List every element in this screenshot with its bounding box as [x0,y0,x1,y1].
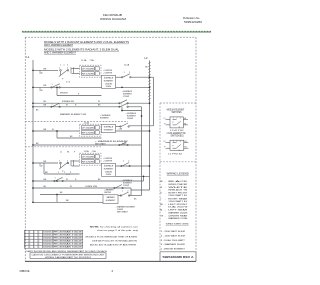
dual element switch S1 dashed enclosure [80,65,102,77]
svg-text:AND 1 WARMER ELEMENT: AND 1 WARMER ELEMENT [44,51,76,54]
svg-text:5995420286 REV A: 5995420286 REV A [163,255,194,259]
svg-text:AVOID A UTILIZATION OF ANOTHER: AVOID A UTILIZATION OF ANOTHER [90,243,137,246]
svg-text:OR: OR [160,215,163,217]
svg-text:11.5A: 11.5A [84,150,90,153]
svg-text:P: P [74,151,76,153]
svg-text:1: 1 [64,65,65,67]
junction C2 tap [56,180,58,182]
svg-text:WIRING DIAGRAM: WIRING DIAGRAM [100,17,127,21]
svg-text:BK: BK [145,67,148,69]
wire L1 upper B row [33,102,120,104]
svg-text:WARMER: WARMER [106,196,115,199]
svg-text:4 - WARMER 1100W: 4 - WARMER 1100W [161,243,185,246]
svg-text:1 - 2500 WATT ELEM: 1 - 2500 WATT ELEM [161,230,186,233]
svg-text:11.5A: 11.5A [81,59,87,62]
svg-text:WARMER 1500W: WARMER 1500W [168,211,187,214]
switch contact S8 [121,163,131,167]
svg-text:-: - [165,210,166,212]
svg-text:2500W: 2500W [105,83,112,85]
dual element switch S1 row 2 contact box [81,72,94,75]
wire E2 out [116,126,121,128]
svg-text:CENTER REAR: CENTER REAR [168,214,188,217]
svg-text:240V: 240V [106,86,112,88]
svg-text:SWITCH(ES): SWITCH(ES) [171,136,184,138]
aux bus wire [153,77,155,126]
wire B2 drop [56,131,58,138]
svg-text:316048418: 316048418 [43,246,52,248]
svg-text:RR 1200W: RR 1200W [82,132,94,134]
svg-text:1 2 3: 1 2 3 [66,174,70,176]
switch contact S6 [119,142,129,146]
svg-text:BK: BK [36,109,39,111]
wire L1 to S4 [33,130,80,132]
label surface element A [122,90,133,98]
svg-text:LF 2500W: LF 2500W [82,68,94,70]
svg-text:FEC30S6AW 316048: FEC30S6AW 316048 [54,237,82,240]
svg-text:x: x [25,232,26,234]
switch contact S9 [120,192,130,196]
svg-text:WARMER ELEMENT SW: WARMER ELEMENT SW [60,113,86,116]
svg-text:1: 1 [52,84,53,86]
junction L1-B1 [32,106,34,108]
wire L1 oven row [33,187,131,189]
svg-text:WIRING DIAGRAM PART NO 3162393: WIRING DIAGRAM PART NO 316239301 [45,256,91,259]
svg-text:L1: L1 [164,118,166,120]
wire L1 to element E1 [33,86,102,88]
switch contact S1b [51,84,61,88]
svg-text:1750W: 1750W [123,185,129,187]
wire E4 out [118,195,121,197]
wire C2 riser [143,176,145,181]
svg-text:H2: H2 [184,123,186,125]
svg-text:SURFACE SW: SURFACE SW [62,100,74,103]
junction L2-A2 [149,86,151,88]
wire S1 in b [72,73,80,75]
svg-text:3 - DUAL 2500 WATT: 3 - DUAL 2500 WATT [161,239,186,242]
wire B drop [121,107,123,111]
svg-text:7.5A: 7.5A [90,59,95,62]
svg-text:FEC36S6AB 316048: FEC36S6AB 316048 [54,240,82,243]
element switch S4 row 1 contact box [81,126,94,129]
wire S9 to N [129,195,141,197]
main box bottom border [25,260,196,262]
notes text block [44,41,129,55]
dual element switch detail [166,140,189,150]
svg-text:LF 2500W: LF 2500W [82,156,94,158]
svg-text:5 - BRIDGE ELEMENT: 5 - BRIDGE ELEMENT [161,249,186,251]
svg-text:CAUTION: DISCONNECT POWER BEFO: CAUTION: DISCONNECT POWER BEFORE SERVICI… [32,253,106,256]
svg-text:-: - [165,193,166,195]
svg-text:H1: H1 [185,141,187,143]
surface element E3 [102,163,116,176]
junction L2-A1 [149,76,151,78]
svg-text:NOTE: for checking all switche: NOTE: for checking all switches see [90,226,139,229]
dual element switch S7 dashed enclosure [80,153,102,165]
switch contact S3a [51,103,61,107]
svg-text:ELEMENT: ELEMENT [106,200,116,202]
svg-text:BR: BR [160,204,163,206]
wire E1 return [116,86,150,88]
svg-text:BL: BL [160,210,162,212]
svg-text:SURFACE: SURFACE [104,165,114,168]
svg-text:ELEMENT: ELEMENT [104,168,114,170]
wire S7 in b [72,165,80,167]
svg-text:2: 2 [127,103,128,105]
L2 bus crossing ticks [148,62,151,99]
svg-text:2: 2 [128,161,129,163]
wire upper B to L2 [128,102,150,104]
svg-text:2: 2 [127,190,128,192]
svg-text:W: W [160,187,162,189]
svg-text:1200 WATT EL: 1200 WATT EL [168,200,187,203]
svg-text:RIGHT REAR: RIGHT REAR [168,197,188,200]
svg-text:7.5A: 7.5A [92,150,97,153]
junction N tap [141,115,143,117]
green separator rule [22,31,211,33]
svg-text:1: 1 [59,160,60,162]
svg-text:ELEMENT: ELEMENT [104,130,114,132]
svg-text:DUAL 2500 W: DUAL 2500 W [168,206,187,209]
junction L1-A2 [32,87,34,89]
svg-text:RR 1200W: RR 1200W [82,161,94,163]
svg-text:BK: BK [44,161,47,163]
svg-text:H1: H1 [67,151,69,153]
switch contact S3b [119,103,129,107]
wire L1 to warmer [33,201,103,203]
wire A2 drop [56,87,58,95]
switch S7 contacts [59,160,73,169]
svg-text:+ LIMITER: + LIMITER [103,160,113,162]
switch contact S10 [114,185,124,189]
svg-text:1750W: 1750W [123,96,129,98]
svg-text:BK: BK [98,179,101,181]
svg-text:-: - [165,215,166,217]
svg-text:S: S [179,127,181,129]
wire S3 to N [128,106,142,108]
wire C aux drop [43,163,45,174]
svg-text:RR 1200W: RR 1200W [82,73,94,75]
svg-text:1: 1 [59,68,60,70]
neutral bus wire [141,107,143,196]
wire L1 warmer row [33,144,142,146]
svg-text:SURFACE: SURFACE [104,77,114,80]
svg-text:1: 1 [122,190,123,192]
svg-text:MODELS PLUS WIRING AT TIME OF: MODELS PLUS WIRING AT TIME OF A NEW [86,236,139,239]
svg-text:40: 40 [41,73,43,75]
junction B2 tap [56,130,58,132]
junction L1-B3 [32,144,34,146]
svg-text:SURFACE: SURFACE [104,126,114,129]
svg-text:L1 P H2 S2: L1 P H2 S2 [168,153,182,155]
switch contact S5 [120,123,130,127]
wire warmer feed [40,194,103,196]
svg-text:2: 2 [112,269,114,273]
dual element switch S1 row 1 contact box [81,67,94,70]
svg-text:BK: BK [60,192,63,194]
wire L1 to S1 [33,69,58,71]
svg-text:SEE CHART: SEE CHART [95,143,107,146]
svg-text:2 - 1200 WATT ELEM: 2 - 1200 WATT ELEM [161,234,186,237]
wire S1 P line [57,95,102,97]
switch S1 contacts [59,67,73,76]
svg-text:WIRING LEGEND: WIRING LEGEND [167,171,189,175]
svg-text:R: R [75,105,77,107]
wire S7 aux line [44,173,80,175]
svg-text:x: x [25,238,26,240]
wire D riser [130,188,132,196]
svg-text:-: - [165,187,166,189]
wire flag C1 [39,163,41,167]
wire B tap to N [122,110,142,112]
wire S1 in a [72,68,80,70]
svg-text:316048414: 316048414 [43,235,52,237]
wire L2 bottom link [131,189,150,191]
svg-text:SENSOR: SENSOR [60,92,68,94]
junction N-C [143,175,145,177]
model chart table [24,230,82,248]
model chart text [25,231,82,249]
svg-text:1: 1 [173,118,174,120]
svg-text:2: 2 [59,103,60,105]
junction L2-B0 [149,102,151,104]
svg-text:P: P [173,145,175,147]
svg-text:SEE CHART: SEE CHART [117,211,129,214]
svg-text:1200W: 1200W [127,118,133,120]
svg-text:P: P [78,93,80,95]
caution box [30,253,106,259]
svg-text:1: 1 [121,103,122,105]
svg-text:BK: BK [70,136,73,138]
svg-text:W/RED TRACER: W/RED TRACER [168,183,188,186]
svg-text:08/01: 08/01 [20,269,31,273]
svg-text:2: 2 [59,84,60,86]
svg-text:R: R [75,179,77,181]
svg-text:SWITCHES: SWITCHES [172,112,182,114]
svg-text:2: 2 [67,65,68,67]
section divider dashed 1 [25,121,128,123]
surface element E1 [102,75,116,88]
svg-text:x: x [25,241,26,243]
wire L1 to element E3 [33,180,144,182]
svg-text:BK: BK [36,143,39,145]
svg-text:1: 1 [55,178,56,180]
svg-text:1: 1 [58,172,59,174]
svg-text:L1: L1 [26,55,30,59]
svg-text:Y: Y [160,198,162,200]
svg-text:FEC30S6AB 316048: FEC30S6AB 316048 [54,231,82,234]
svg-text:+ LIMITER: + LIMITER [103,72,113,74]
svg-text:BK: BK [134,199,137,201]
svg-text:2: 2 [67,160,68,162]
wire S5 to aux [129,125,154,127]
wire S7 in a [72,160,80,162]
wire flag A2 [39,87,41,91]
svg-text:W: W [66,179,68,181]
svg-text:ELEMENT: ELEMENT [100,118,110,120]
svg-text:L1: L1 [60,151,62,153]
svg-text:L1 H1 P H2: L1 H1 P H2 [170,130,184,132]
svg-text:BLACK: BLACK [168,180,189,183]
svg-text:316048417: 316048417 [43,244,52,246]
svg-text:1: 1 [52,103,53,105]
svg-text:P: P [70,172,72,174]
svg-text:W: W [66,105,68,107]
svg-text:2: 2 [176,141,177,143]
wire E3 to L2 [116,165,150,167]
junction L1-D [32,201,34,203]
legend column divider [159,103,161,252]
svg-text:SURFACE ELEMENT LEGEND: SURFACE ELEMENT LEGEND [166,223,189,226]
element switch S4 row 2 contact box [81,131,94,134]
legend column top divider [160,102,196,104]
svg-text:LF 2500W: LF 2500W [82,127,94,129]
svg-text:W: W [98,101,100,103]
svg-text:BK: BK [44,179,47,181]
svg-text:x: x [25,244,26,246]
wire E1 to S2 [116,76,123,78]
junction L1-C2 [32,180,34,182]
svg-text:2: 2 [176,118,177,120]
wire D drop [56,195,58,203]
svg-text:LIMITER: LIMITER [104,192,112,194]
svg-text:AND 1 WARMING ELEMENT: AND 1 WARMING ELEMENT [44,44,73,47]
junction A2 tap [56,87,58,89]
title block box [160,251,196,253]
junction L1-D0 [32,187,34,189]
L1 bus wire [32,60,34,203]
svg-text:• DUAL ELEMENT SW: • DUAL ELEMENT SW [167,132,187,135]
svg-text:WARMER ZONE: WARMER ZONE [168,217,188,220]
svg-text:2: 2 [67,68,68,70]
L2 bus wire [149,61,151,191]
svg-text:2: 2 [129,72,130,74]
svg-text:chart on page 2 of this pub. o: chart on page 2 of this pub. only [97,229,139,232]
svg-text:BK: BK [44,85,47,87]
warmer element E4 [103,195,118,204]
svg-text:1800W: 1800W [105,171,112,173]
junction B tap [121,110,123,112]
wire E2 return [116,130,150,132]
svg-text:BK: BK [66,200,69,202]
svg-text:-: - [165,181,166,183]
junction E1 tap [121,86,123,88]
svg-text:L2: L2 [145,56,149,60]
svg-text:BK: BK [44,101,47,103]
switch contact S3c [119,100,129,104]
junction L1-B2 [32,130,34,132]
svg-text:316048416: 316048416 [43,241,52,243]
svg-text:+ LIM: + LIM [118,128,123,130]
junction D tap [56,194,58,196]
svg-text:FEC30S6AS 316048: FEC30S6AS 316048 [54,234,82,237]
svg-text:LEFT REAR: LEFT REAR [168,209,188,212]
svg-text:W/BLACK TR: W/BLACK TR [168,189,188,192]
modular element switch detail [166,117,188,128]
wire E3 return [116,175,150,177]
svg-text:BK: BK [44,186,47,188]
svg-text:40: 40 [41,90,43,92]
legend divider dashed [160,161,196,163]
dual element switch S7 row 2 contact box [81,160,94,163]
wire S4 P line [57,137,102,139]
svg-text:OVEN SW: OVEN SW [85,186,97,188]
svg-text:USE AS POULLET IS INSTALLATION: USE AS POULLET IS INSTALLATION [92,239,137,242]
svg-text:BK: BK [160,181,163,183]
svg-text:• MODULAR ELEMENT: • MODULAR ELEMENT [166,108,185,111]
svg-text:240V: 240V [106,174,112,176]
svg-text:40: 40 [41,165,43,167]
switch contact S7b [54,178,64,182]
svg-text:BK: BK [44,105,47,107]
junction L1-B0 [32,102,34,104]
junction L1-A1 [32,69,34,71]
svg-text:316048413: 316048413 [43,232,52,234]
surface element E2 [102,125,116,133]
svg-text:11.5A: 11.5A [124,64,130,67]
wire S2 to L2 [131,76,154,78]
svg-text:1: 1 [123,161,124,163]
svg-text:2500 WATT EL: 2500 WATT EL [168,194,187,197]
svg-text:P: P [62,78,64,80]
svg-text:H1: H1 [184,118,186,120]
svg-text:3: 3 [180,118,181,120]
svg-text:x: x [25,246,26,248]
svg-text:5995420286: 5995420286 [184,20,203,24]
section divider dashed 2 [25,146,101,148]
svg-text:P: P [173,122,175,124]
svg-text:-: - [165,204,166,206]
svg-text:L2: L2 [164,141,166,143]
svg-text:2: 2 [64,172,65,174]
svg-text:1: 1 [124,72,125,74]
svg-text:R: R [160,193,162,195]
svg-text:3: 3 [180,141,181,143]
svg-text:W: W [52,129,54,131]
svg-text:H2: H2 [185,147,187,149]
svg-text:FEC36S6AW 316048: FEC36S6AW 316048 [54,245,82,248]
svg-text:1: 1 [60,65,61,67]
wire L1 to S3 [33,106,120,108]
svg-text:ELEMENT: ELEMENT [104,80,114,82]
svg-text:1 2 3: 1 2 3 [66,82,70,84]
wire L1 to S7 [33,162,58,164]
svg-text:BK: BK [98,105,101,107]
wire flag A1 [39,70,41,74]
switch contact S2 [122,74,132,78]
dual element switch S7 row 1 contact box [81,155,94,158]
junction L2-C1 [149,165,151,167]
junction L1-C1 [32,162,34,164]
junction L2-B2 [149,130,151,132]
svg-text:-: - [165,198,166,200]
svg-text:FEC36S6AS 316048: FEC36S6AS 316048 [54,243,82,246]
element switch S4 dashed enclosure [80,124,102,136]
svg-text:BK: BK [44,129,47,131]
svg-text:W: W [70,186,72,188]
svg-text:x: x [25,235,26,237]
svg-text:1: 1 [173,141,174,143]
main schematic dashed border box [25,37,196,261]
svg-text:BK: BK [45,172,48,174]
svg-text:2: 2 [62,178,63,180]
svg-text:316048415: 316048415 [43,238,52,240]
